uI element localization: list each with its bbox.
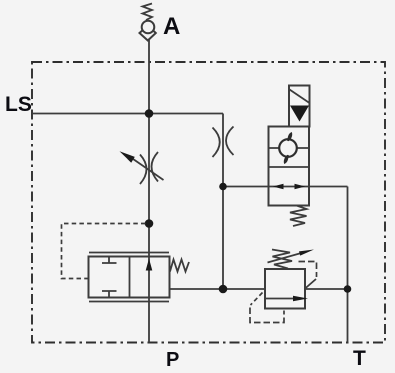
solenoid proportional diagonal xyxy=(290,90,310,104)
relief valve flow arrow xyxy=(265,298,297,300)
compensator pilot dashed line xyxy=(62,224,146,279)
logic valve arrow right xyxy=(295,184,306,190)
relief valve spring xyxy=(272,250,292,269)
junction dot LS/A-line xyxy=(145,109,154,118)
logic valve body xyxy=(269,127,310,206)
relief pilot bracket top dashed xyxy=(299,262,317,278)
test coupling spring xyxy=(143,4,153,21)
wire from logic valve right xyxy=(309,186,348,188)
variable throttle arcs xyxy=(140,152,158,184)
logic valve poppet circle xyxy=(279,139,297,157)
wire T vertical xyxy=(347,187,349,343)
wire relief line xyxy=(223,288,348,290)
logic valve flow line xyxy=(269,186,310,188)
fixed orifice xyxy=(213,127,234,158)
junction dot T line xyxy=(344,285,352,293)
compensator blocked port top xyxy=(102,257,117,264)
logic valve seat line xyxy=(269,147,310,149)
logic valve divider xyxy=(269,166,310,168)
svg-text:LS: LS xyxy=(5,93,32,116)
junction dot relief line xyxy=(219,285,228,294)
logic valve hook bottom xyxy=(284,155,289,164)
variable throttle arrow xyxy=(128,156,164,181)
svg-text:P: P xyxy=(166,349,179,371)
compensator arrow up xyxy=(146,259,153,271)
logic valve spring xyxy=(290,206,307,227)
relief pilot diagonal top xyxy=(305,279,317,289)
logic valve arrow left xyxy=(273,184,284,190)
svg-text:A: A xyxy=(163,13,180,40)
junction dot logic valve branch xyxy=(219,183,227,191)
test coupling poppet seat xyxy=(140,26,156,41)
compensator spring xyxy=(170,260,189,272)
compensator rail top xyxy=(89,252,169,254)
svg-text:T: T xyxy=(353,347,366,370)
wire LS branch vertical xyxy=(222,114,224,290)
wire A-line vertical xyxy=(148,40,150,343)
relief pilot diagonal bottom dashed xyxy=(251,293,263,306)
compensator flow line xyxy=(148,257,150,298)
relief valve adjust arrow xyxy=(268,253,301,262)
compensator divider xyxy=(129,257,131,298)
compensator body xyxy=(89,257,170,298)
solenoid triangle xyxy=(290,106,309,122)
solenoid block xyxy=(289,86,310,127)
wire LS horizontal xyxy=(32,113,223,115)
logic valve hook top xyxy=(287,132,292,141)
test coupling ball xyxy=(142,21,155,34)
relief pilot bracket bottom dashed xyxy=(250,308,284,323)
junction dot pilot tap xyxy=(145,219,154,228)
wire compensator outlet xyxy=(170,288,224,290)
compensator rail bottom xyxy=(89,301,169,303)
wire to logic valve left xyxy=(223,186,269,188)
compensator blocked port bottom xyxy=(102,291,117,298)
enclosure dash-dot border xyxy=(32,62,385,343)
relief valve body xyxy=(265,269,305,309)
